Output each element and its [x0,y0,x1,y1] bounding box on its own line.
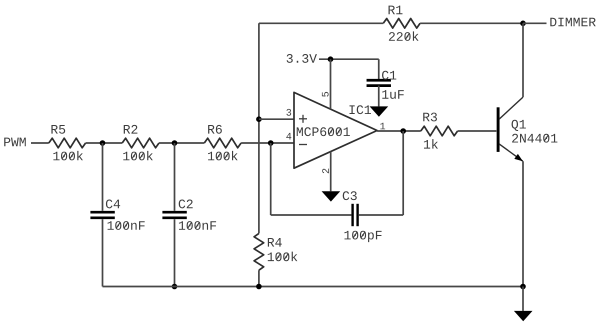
resistor R4 [254,233,297,270]
pin number 4 [286,133,291,140]
wire C4 top lead [102,143,104,211]
node junction C2/GND rail [172,284,178,290]
capacitor C4 [90,200,144,230]
wire C3 left horizontal [271,214,352,216]
ground symbol bottom right [514,311,533,321]
wire ground rail [103,286,524,288]
wire op-amp output [377,130,421,132]
wire R1 to DIMMER node [420,22,523,24]
node junction DIMMER [520,21,526,27]
wire R2 to R6 [159,142,204,144]
wire feedback vertical [258,23,260,233]
wire C1 bottom lead [378,86,380,107]
node junction R5/C4 [100,140,106,146]
resistor R5 [49,125,86,160]
ground symbol below C1 [370,106,389,116]
resistor R2 [122,125,159,161]
wire C2 bottom lead [174,219,176,286]
node junction R2/C2 [172,140,178,146]
wire R4 to ground rail [258,270,260,286]
wire collector up [522,23,524,97]
node junction emitter/GND rail [520,284,526,290]
wire C2 top lead [174,143,176,211]
node junction 3.3V/pin5 [328,56,334,62]
op-amp U1 IC1 MCP6001 [294,92,377,168]
wire R5 to R2 [86,142,123,144]
net label DIMMER [550,18,595,27]
wire op-amp pin 3 [259,118,295,120]
wire op-amp pin 2 [330,152,332,192]
wire C3 left leg down [270,143,272,215]
wire R3 to base [458,130,497,132]
wire top rail left [259,22,383,24]
wire op-amp pin 5 [330,59,332,109]
pin number 1 [380,123,385,130]
resistor R6 [204,125,241,161]
resistor R3 [421,113,458,149]
wire C4 bottom lead [102,219,104,286]
pin number 5 [322,92,329,97]
wire R6 to op-amp pin 4 [241,142,295,144]
wire PWM to R5 [31,142,49,144]
resistor R1 [383,6,420,41]
pin number 3 [286,109,291,116]
capacitor C3 [343,191,382,242]
node junction feedback C3 [268,140,274,146]
net label PWM [4,138,26,147]
node junction pin3/feedback [256,116,262,122]
capacitor C1 [367,71,404,99]
label IC1 [349,105,370,114]
net label 3.3V [287,54,317,63]
wire DIMMER stub [523,22,547,24]
wire C3 right leg up [402,131,404,215]
node junction output [400,128,406,134]
transistor Q1 2N4401 [498,97,557,161]
ground symbol pin 2 [322,191,341,201]
node junction R4/GND rail [256,284,262,290]
pin number 2 [322,169,329,174]
wire to ground symbol [522,287,524,311]
capacitor C2 [162,200,216,230]
wire 3.3V rail [319,58,379,60]
wire emitter down [522,161,524,286]
wire C3 right horizontal [359,214,403,216]
wire C1 top lead [378,59,380,80]
